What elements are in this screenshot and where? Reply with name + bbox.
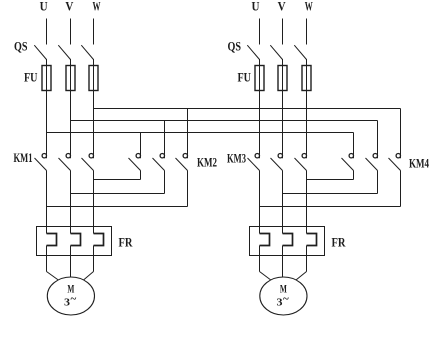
wire crossover KM1p2-KM2p2 (71, 193, 165, 195)
contact circle KM3 pole 2 (278, 154, 282, 158)
wire into KM4 pole 2 (377, 121, 379, 159)
wire through fuse U (left) (46, 66, 48, 91)
motor M circle (right) (260, 277, 307, 315)
wire through fuse V (left) (70, 66, 72, 91)
svg-text:FU: FU (238, 70, 252, 85)
contact circle KM3 pole 3 (302, 154, 306, 158)
thermal relay FR box (left) (37, 227, 112, 256)
fuse FU V (right) (278, 66, 287, 91)
wire motor lead left (left) (47, 272, 59, 281)
wire bus V (fuse-V to KM4 pole2) (71, 120, 378, 122)
contact blade KM3 pole 2 (271, 158, 283, 171)
FR heater element 1 (left) (47, 234, 57, 246)
fuse FU W (right) (302, 66, 311, 91)
wire fuse-U to KM1 (left) (46, 91, 48, 159)
contact circle KM2 pole 3 (183, 154, 187, 158)
wire QS-to-fuse W (left) (93, 59, 95, 66)
contact circle KM4 pole 3 (396, 154, 400, 158)
wire U supply drop (left) (46, 19, 48, 45)
wire fuse-W to KM3 (right) (306, 91, 308, 159)
wire KM3 pole 1 to FR (259, 171, 261, 234)
wire KM4 pole 1 down (353, 171, 355, 180)
wire fuse-V to KM1 (left) (70, 91, 72, 159)
wire FR element 3 out (right) (306, 246, 308, 272)
switch QS blade W (right) (294, 45, 306, 59)
wire FR element 2 out (left) (70, 246, 72, 272)
switch QS blade U (left) (34, 45, 46, 59)
wire FR element 1 out (right) (259, 246, 261, 272)
svg-text:FR: FR (119, 235, 133, 250)
wire into KM2 pole 2 (164, 121, 166, 159)
svg-text:~: ~ (71, 293, 77, 305)
wire into KM4 pole 3 (400, 109, 402, 159)
svg-text:FR: FR (332, 235, 346, 250)
wire KM1 pole 2 to FR (70, 171, 72, 234)
wire FR element 2 out (right) (282, 246, 284, 272)
wire fuse-W to KM1 (left) (93, 91, 95, 159)
wire KM2 pole 2 down (164, 171, 166, 194)
wire crossover KM3p2-KM4p2 (283, 193, 378, 195)
contact blade KM4 pole 1 (342, 158, 354, 171)
switch QS blade U (right) (247, 45, 259, 59)
contact circle KM4 pole 2 (373, 154, 377, 158)
wire bus W (fuse-W to KM4 pole3) (94, 108, 401, 110)
wire KM4 pole 2 down (377, 171, 379, 194)
svg-text:FU: FU (24, 70, 38, 85)
FR heater element 2 (right) (283, 234, 293, 246)
wire KM3 pole 3 to FR (306, 171, 308, 234)
contact blade KM4 pole 3 (389, 158, 401, 171)
wire W supply drop (right) (306, 19, 308, 45)
wire crossover KM3p3-KM4p1 (307, 179, 354, 181)
wire FR element 1 out (left) (46, 246, 48, 272)
wire into KM2 pole 1 (140, 133, 142, 159)
wire through fuse W (right) (306, 66, 308, 91)
fuse FU U (left) (42, 66, 51, 91)
wire into KM4 pole 1 (353, 133, 355, 159)
contact circle KM2 pole 1 (136, 154, 140, 158)
wire V supply drop (right) (282, 19, 284, 45)
contact blade KM3 pole 1 (248, 158, 260, 171)
wire KM4 pole 3 down (400, 171, 402, 207)
switch QS blade W (left) (81, 45, 93, 59)
switch QS blade V (left) (58, 45, 70, 59)
wire KM3 pole 2 to FR (282, 171, 284, 234)
wire motor lead right (left) (84, 272, 94, 281)
wire through fuse V (right) (282, 66, 284, 91)
wire QS-to-fuse W (right) (306, 59, 308, 66)
FR heater element 3 (left) (94, 234, 104, 246)
wire QS-to-fuse U (left) (46, 59, 48, 66)
fuse FU W (left) (89, 66, 98, 91)
svg-text:QS: QS (228, 39, 242, 54)
fuse FU U (right) (255, 66, 264, 91)
wire motor lead mid (left) (70, 272, 72, 278)
contact circle KM1 pole 3 (89, 154, 93, 158)
wire bus U (fuse-U to KM4 pole1) (47, 132, 354, 134)
FR heater element 1 (right) (260, 234, 270, 246)
svg-text:W: W (93, 0, 101, 14)
svg-text:KM2: KM2 (197, 155, 217, 170)
contact circle KM1 pole 1 (42, 154, 46, 158)
FR heater element 3 (right) (307, 234, 317, 246)
svg-text:KM3: KM3 (227, 151, 246, 166)
motor M circle (left) (47, 277, 94, 315)
wire fuse-U to KM3 (right) (259, 91, 261, 159)
wire fuse-V to KM3 (right) (282, 91, 284, 159)
wire W supply drop (left) (93, 19, 95, 45)
wire crossover KM1p3-KM2p1 (94, 179, 141, 181)
svg-text:KM4: KM4 (409, 156, 429, 171)
switch QS blade V (right) (270, 45, 282, 59)
contact blade KM2 pole 1 (129, 158, 141, 171)
wire QS-to-fuse U (right) (259, 59, 261, 66)
thermal relay FR box (right) (250, 227, 325, 256)
wire KM2 pole 3 down (187, 171, 189, 207)
wire QS-to-fuse V (right) (282, 59, 284, 66)
wire crossover KM1p1-KM2p3 (47, 206, 188, 208)
wire through fuse W (left) (93, 66, 95, 91)
contact blade KM3 pole 3 (295, 158, 307, 171)
contact blade KM4 pole 2 (366, 158, 378, 171)
wire KM2 pole 1 down (140, 171, 142, 180)
wire into KM2 pole 3 (187, 109, 189, 159)
wire motor lead right (right) (296, 272, 307, 281)
wire motor lead left (right) (260, 272, 271, 281)
svg-text:V: V (278, 0, 287, 14)
FR heater element 2 (left) (71, 234, 81, 246)
wire motor lead mid (right) (282, 272, 284, 278)
wire KM1 pole 1 to FR (46, 171, 48, 234)
contact circle KM4 pole 1 (349, 154, 353, 158)
wire crossover KM3p1-KM4p3 (260, 206, 401, 208)
wire KM1 pole 3 to FR (93, 171, 95, 234)
wire U supply drop (right) (259, 19, 261, 45)
wire V supply drop (left) (70, 19, 72, 45)
svg-text:W: W (305, 0, 313, 14)
contact blade KM1 pole 2 (59, 158, 71, 171)
contact blade KM2 pole 2 (153, 158, 165, 171)
contact blade KM1 pole 1 (35, 158, 47, 171)
svg-text:U: U (40, 0, 49, 14)
contact circle KM3 pole 1 (255, 154, 259, 158)
contact blade KM1 pole 3 (82, 158, 94, 171)
contact circle KM1 pole 2 (66, 154, 70, 158)
wire QS-to-fuse V (left) (70, 59, 72, 66)
svg-text:~: ~ (283, 293, 289, 305)
svg-text:KM1: KM1 (14, 150, 33, 165)
fuse FU V (left) (66, 66, 75, 91)
svg-text:V: V (65, 0, 74, 14)
wire FR element 3 out (left) (93, 246, 95, 272)
contact circle KM2 pole 2 (160, 154, 164, 158)
contact blade KM2 pole 3 (176, 158, 188, 171)
svg-text:QS: QS (14, 39, 28, 54)
svg-text:U: U (252, 0, 261, 14)
wire through fuse U (right) (259, 66, 261, 91)
